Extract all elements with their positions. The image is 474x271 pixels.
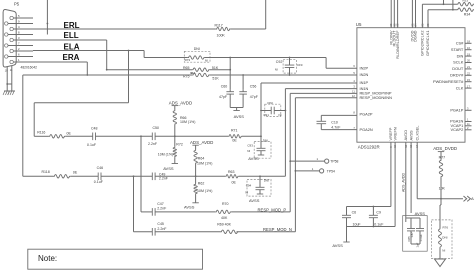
svg-text:C48: C48 bbox=[91, 127, 98, 131]
svg-text:TP58: TP58 bbox=[330, 160, 338, 164]
svg-text:10M (1%): 10M (1%) bbox=[180, 120, 195, 124]
ground AVSS (R72) bbox=[163, 157, 178, 171]
wire RLDINV bbox=[390, 0, 392, 28]
svg-text:C50: C50 bbox=[153, 126, 160, 130]
svg-text:0.1uF: 0.1uF bbox=[87, 143, 97, 147]
off-page connector ADC bbox=[464, 196, 474, 201]
svg-text:R69 40K: R69 40K bbox=[217, 222, 231, 226]
svg-text:DNI: DNI bbox=[442, 235, 447, 239]
U5 right pin labels bbox=[433, 40, 471, 133]
capacitor C91 (DNI) bbox=[261, 101, 285, 117]
svg-text:ADS1292R: ADS1292R bbox=[358, 145, 380, 150]
svg-text:AVSS: AVSS bbox=[248, 156, 259, 161]
svg-text:C91: C91 bbox=[263, 113, 269, 117]
svg-text:PGA2P: PGA2P bbox=[360, 112, 373, 117]
svg-text:ERA: ERA bbox=[63, 53, 80, 62]
svg-text:NI: NI bbox=[247, 149, 250, 153]
capacitor C9 bbox=[369, 207, 384, 227]
svg-text:GPIO2/RCLK2: GPIO2/RCLK2 bbox=[420, 31, 425, 57]
svg-text:NI: NI bbox=[442, 248, 445, 252]
svg-text:10K: 10K bbox=[439, 187, 446, 191]
svg-text:R34: R34 bbox=[464, 12, 471, 16]
resistor R34 (top right) bbox=[457, 8, 474, 16]
capacitor C50 bbox=[148, 126, 159, 146]
svg-text:2.2nF: 2.2nF bbox=[148, 142, 158, 146]
svg-text:AVSS: AVSS bbox=[332, 243, 343, 248]
svg-text:0.1uF: 0.1uF bbox=[374, 222, 384, 226]
svg-text:AVSS: AVSS bbox=[184, 205, 195, 210]
wire AVSS pin bbox=[411, 142, 425, 216]
svg-text:0E: 0E bbox=[67, 132, 72, 136]
svg-text:AVSS: AVSS bbox=[415, 211, 426, 216]
wire IN1N bbox=[285, 88, 357, 90]
svg-text:2.2nF: 2.2nF bbox=[157, 227, 167, 231]
svg-text:ADS_DVDD: ADS_DVDD bbox=[433, 146, 457, 151]
svg-text:R64: R64 bbox=[198, 157, 205, 161]
capacitor C85/C87 box bbox=[403, 216, 428, 252]
wire CLKSEL to ADC bbox=[416, 142, 418, 199]
ground AVSS (R62) bbox=[184, 195, 199, 210]
svg-text:R63: R63 bbox=[228, 170, 235, 174]
svg-text:RESP_MOD_P: RESP_MOD_P bbox=[258, 207, 287, 212]
capacitor C48 bbox=[87, 127, 98, 148]
wire ELA branch down bbox=[128, 51, 130, 103]
resistor R62 bbox=[194, 176, 212, 194]
resistor R71 bbox=[228, 128, 242, 142]
svg-text:R72: R72 bbox=[176, 143, 183, 147]
capacitor C60 bbox=[219, 84, 234, 99]
wire R65 out bbox=[210, 69, 231, 71]
svg-text:R117: R117 bbox=[215, 24, 223, 28]
wire DNI out bbox=[205, 57, 230, 59]
svg-text:51K: 51K bbox=[212, 76, 219, 80]
resistor R63 bbox=[225, 170, 238, 184]
wire RESP_MODP bbox=[290, 92, 357, 94]
wire DVDD bbox=[411, 0, 413, 28]
power ADS_AVDD (R66) bbox=[169, 101, 192, 110]
wire row2 bbox=[23, 175, 54, 177]
svg-text:RESP_MOD_N: RESP_MOD_N bbox=[263, 227, 292, 232]
resistor R73 (DNI) bbox=[184, 47, 210, 62]
svg-text:VCAP2: VCAP2 bbox=[451, 127, 464, 132]
svg-text:ADS_AVDD: ADS_AVDD bbox=[190, 140, 213, 145]
wire pins 9/8 bus to top bbox=[46, 0, 48, 35]
resistor R75 bbox=[183, 73, 219, 80]
svg-text:0E: 0E bbox=[73, 171, 78, 175]
wire ELA row bbox=[33, 50, 144, 52]
svg-text:NI: NI bbox=[205, 59, 208, 63]
capacitor C49 bbox=[152, 172, 169, 180]
svg-text:C94: C94 bbox=[246, 184, 252, 188]
svg-text:47pF: 47pF bbox=[250, 95, 259, 99]
svg-text:R118: R118 bbox=[42, 170, 50, 174]
capacitor C46 bbox=[94, 166, 104, 184]
ground (R76) bbox=[435, 248, 446, 267]
svg-text:DNI: DNI bbox=[268, 101, 273, 105]
svg-text:482016042: 482016042 bbox=[21, 65, 38, 69]
svg-text:AVSS: AVSS bbox=[249, 198, 260, 203]
svg-text:DGND: DGND bbox=[413, 30, 418, 42]
svg-text:0.1uF: 0.1uF bbox=[419, 234, 423, 241]
power ADS_DVDD bbox=[433, 146, 457, 160]
wire VREFP bbox=[390, 142, 392, 206]
resistor R77 bbox=[439, 156, 446, 191]
svg-text:R62: R62 bbox=[198, 181, 205, 185]
svg-text:C60: C60 bbox=[221, 84, 228, 88]
svg-text:4.7nF: 4.7nF bbox=[331, 125, 341, 129]
capacitor C92 (DNI) bbox=[275, 58, 303, 76]
svg-text:CLKSEL: CLKSEL bbox=[414, 125, 419, 141]
svg-text:START: START bbox=[451, 47, 464, 52]
ground AVSS (C60/C56) bbox=[230, 97, 244, 119]
svg-text:P5: P5 bbox=[14, 2, 20, 7]
svg-text:RLDIN/RLDREF: RLDIN/RLDREF bbox=[395, 30, 400, 59]
svg-text:R70: R70 bbox=[222, 202, 229, 206]
svg-text:R73: R73 bbox=[185, 58, 191, 62]
svg-text:RESP_MODN/INN: RESP_MODN/INN bbox=[360, 95, 393, 100]
svg-text:10uF: 10uF bbox=[353, 222, 362, 226]
svg-text:AVSS: AVSS bbox=[234, 114, 245, 119]
wire R75 out / IN2N row bbox=[210, 74, 357, 76]
svg-text:DIN: DIN bbox=[457, 53, 464, 58]
test point TP58 bbox=[289, 157, 338, 163]
U5 top pin labels bbox=[388, 23, 430, 59]
svg-text:DNI: DNI bbox=[263, 138, 268, 142]
svg-text:C10: C10 bbox=[331, 120, 338, 124]
wire ERL up to top edge bbox=[265, 0, 267, 29]
resistor R64 bbox=[194, 150, 212, 166]
svg-text:10M (1%): 10M (1%) bbox=[197, 189, 212, 193]
svg-text:VREFN: VREFN bbox=[392, 127, 397, 140]
svg-text:100K: 100K bbox=[217, 33, 226, 37]
svg-text:R76: R76 bbox=[443, 225, 449, 229]
svg-text:R71: R71 bbox=[231, 128, 238, 132]
svg-text:IN2N: IN2N bbox=[360, 72, 369, 77]
svg-text:CS#: CS# bbox=[456, 41, 464, 46]
svg-text:2.2nF: 2.2nF bbox=[157, 207, 167, 211]
svg-text:0.1uF: 0.1uF bbox=[94, 180, 104, 184]
ground AVSS (C6) bbox=[332, 227, 349, 248]
U5 left pin labels bbox=[352, 64, 392, 132]
wire RLDIN/RLDREF bbox=[397, 0, 399, 28]
U5 bottom pin labels bbox=[388, 125, 419, 148]
wire AVDD / net ADS_AVDD bbox=[402, 142, 406, 218]
capacitor C47 bbox=[152, 202, 167, 216]
svg-text:1uF: 1uF bbox=[416, 242, 420, 247]
resistor R69 bbox=[217, 222, 238, 233]
svg-text:PWDN#/RESET#: PWDN#/RESET# bbox=[433, 79, 464, 84]
ground AVSS (C94) bbox=[249, 192, 263, 203]
svg-text:CLK: CLK bbox=[456, 85, 464, 90]
connector shield pins 10 11 bbox=[5, 66, 13, 91]
wire node RESP_MOD_P bbox=[231, 207, 290, 212]
resistor R66 bbox=[173, 110, 195, 125]
svg-text:IN2P: IN2P bbox=[360, 65, 369, 70]
svg-text:40K: 40K bbox=[221, 216, 228, 220]
svg-text:TP54: TP54 bbox=[327, 169, 335, 173]
svg-text:Note:: Note: bbox=[38, 254, 57, 263]
earth ground (shield) bbox=[3, 91, 10, 95]
wire top row to IN2P bbox=[230, 57, 326, 59]
wire VREFN bbox=[394, 142, 396, 226]
wire node RESP_MOD_N bbox=[237, 227, 296, 232]
svg-text:ELL: ELL bbox=[64, 31, 79, 40]
wire RLDOUT bbox=[393, 0, 395, 28]
svg-text:NI: NI bbox=[245, 191, 248, 195]
test point TP54 bbox=[295, 167, 336, 173]
svg-text:10M (1%): 10M (1%) bbox=[158, 152, 173, 156]
svg-text:ADS_AVDD: ADS_AVDD bbox=[169, 101, 192, 106]
resistor R72 bbox=[158, 136, 183, 157]
svg-text:AVDD: AVDD bbox=[403, 130, 408, 141]
svg-text:DNI: DNI bbox=[194, 47, 200, 51]
svg-text:R116: R116 bbox=[37, 130, 45, 134]
resistor R116 bbox=[37, 130, 71, 138]
svg-text:DNI: DNI bbox=[297, 63, 302, 67]
svg-text:C93: C93 bbox=[247, 143, 253, 147]
svg-text:0E: 0E bbox=[232, 138, 237, 142]
wire RESP_MODN bbox=[295, 97, 357, 99]
svg-text:PGA2N: PGA2N bbox=[360, 127, 373, 132]
svg-text:U5: U5 bbox=[356, 22, 362, 27]
svg-text:C56: C56 bbox=[250, 84, 257, 88]
resistor R65 bbox=[183, 66, 219, 71]
earth ground (shield 2) bbox=[8, 91, 15, 95]
svg-text:C45: C45 bbox=[157, 222, 164, 226]
svg-text:10M (1%): 10M (1%) bbox=[197, 162, 212, 166]
svg-text:NI: NI bbox=[275, 67, 278, 71]
wire row2 to C45 bbox=[133, 176, 135, 232]
svg-text:GPIO1/RCLK1: GPIO1/RCLK1 bbox=[425, 31, 430, 57]
capacitor C56 bbox=[239, 75, 258, 99]
resistor R118 bbox=[42, 170, 78, 178]
svg-text:ADS_AVDD: ADS_AVDD bbox=[402, 172, 406, 192]
wire IN1P bbox=[261, 82, 357, 84]
svg-text:AVSS: AVSS bbox=[408, 130, 413, 140]
connector P5 bbox=[3, 2, 37, 70]
svg-text:DOUT: DOUT bbox=[452, 66, 464, 71]
wire DGND bbox=[415, 0, 417, 28]
svg-text:SCLK: SCLK bbox=[453, 60, 464, 65]
svg-text:PGA1P: PGA1P bbox=[450, 108, 463, 113]
svg-text:C9: C9 bbox=[376, 211, 381, 215]
svg-text:DNI: DNI bbox=[264, 179, 269, 183]
wire ERA branch left bbox=[22, 75, 24, 176]
wire ERA to R75 bbox=[23, 74, 192, 76]
svg-text:R77: R77 bbox=[439, 156, 446, 160]
svg-text:C92: C92 bbox=[276, 60, 283, 64]
ground AVSS (C93) bbox=[248, 153, 264, 161]
note box bbox=[28, 249, 203, 269]
capacitor C45 bbox=[152, 222, 167, 235]
svg-text:47pF: 47pF bbox=[219, 95, 228, 99]
svg-text:C87: C87 bbox=[410, 232, 414, 238]
svg-text:2.2nF: 2.2nF bbox=[159, 177, 169, 181]
resistor R70 bbox=[215, 202, 231, 220]
wire ERA row bbox=[33, 61, 87, 63]
svg-text:C6: C6 bbox=[352, 211, 357, 215]
svg-text:DRDY#: DRDY# bbox=[450, 73, 464, 78]
wire ELL to R65 bbox=[107, 69, 193, 71]
wire ERL row bbox=[33, 28, 216, 30]
resistor R117 bbox=[215, 24, 231, 38]
svg-text:NI: NI bbox=[279, 113, 282, 117]
capacitor C94 (DNI) bbox=[245, 175, 271, 196]
wire row1 bbox=[34, 135, 49, 137]
capacitor C10 bbox=[317, 115, 357, 129]
wire GPIO1 bbox=[427, 10, 429, 28]
svg-text:0E: 0E bbox=[232, 180, 237, 184]
wire GPIO2 bbox=[421, 4, 423, 28]
wire row1 to C47 bbox=[140, 136, 142, 212]
op-amp U5 ADS1292R bbox=[357, 28, 465, 143]
svg-text:R33: R33 bbox=[463, 0, 469, 3]
svg-text:C46: C46 bbox=[97, 166, 104, 170]
capacitor C93 (DNI) bbox=[247, 136, 271, 158]
capacitor C6 bbox=[342, 207, 361, 227]
resistor R76 (DNI) bbox=[432, 199, 453, 259]
wire node A vertical bbox=[229, 58, 231, 90]
svg-text:AVSS: AVSS bbox=[163, 166, 174, 171]
power ADS_AVDD (R64) bbox=[190, 140, 213, 150]
svg-text:IN1P: IN1P bbox=[360, 80, 369, 85]
wire ELL row bbox=[33, 39, 107, 41]
